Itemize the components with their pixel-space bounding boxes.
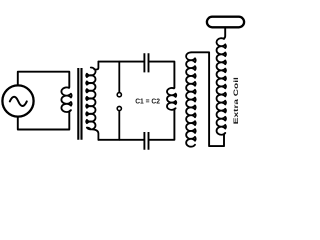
transformer T1 core xyxy=(78,68,81,140)
spark gap SG wires xyxy=(118,62,120,140)
spark gap electrode top xyxy=(117,93,121,97)
capacitor C1 xyxy=(144,53,148,72)
wire: AC source loop xyxy=(18,72,70,130)
inductor L2 tesla secondary xyxy=(186,52,196,146)
transformer T1 secondary winding xyxy=(86,62,98,140)
toroid top load xyxy=(207,17,244,28)
spark gap electrode bottom xyxy=(117,106,121,110)
inductor L1 tesla primary xyxy=(167,88,176,110)
AC source V1 xyxy=(2,85,33,116)
inductor L3 extra coil xyxy=(217,38,226,135)
svg-text:C1 = C2: C1 = C2 xyxy=(135,97,160,106)
transformer T1 primary winding xyxy=(61,87,71,112)
AC sine symbol xyxy=(10,97,27,106)
wire: tank circuit loop xyxy=(98,62,174,140)
capacitor C2 xyxy=(144,132,148,150)
svg-text:Extra Coil: Extra Coil xyxy=(233,77,240,124)
wire: toroid stem xyxy=(224,29,225,39)
wire: transmission line to extra coil xyxy=(191,52,224,146)
